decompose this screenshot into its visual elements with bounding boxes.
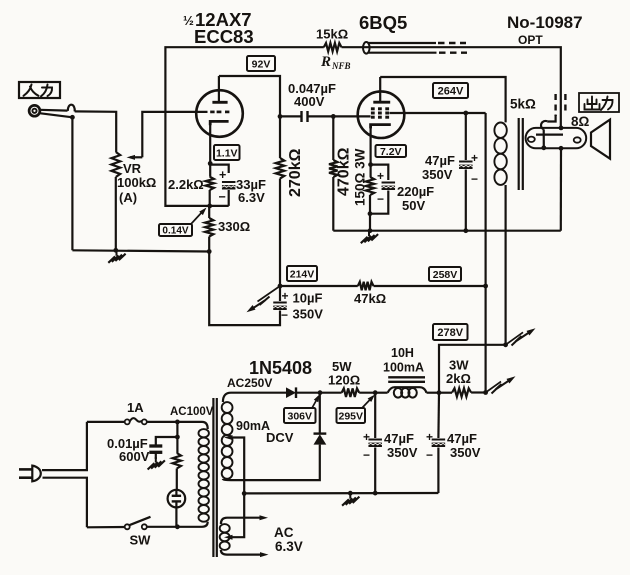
shield dashed continuation xyxy=(438,42,466,44)
6BQ5 plate xyxy=(373,101,390,104)
node 1.1V junction xyxy=(208,161,213,166)
wire 6BQ5 plate to OPT primary xyxy=(380,77,505,122)
wire switch to primary bottom xyxy=(147,526,202,528)
OPT primary 5kΩ winding xyxy=(494,123,506,138)
svg-text:AC100V: AC100V xyxy=(170,406,214,418)
wire shield to ground bus xyxy=(71,117,73,250)
power transformer primary winding xyxy=(202,422,208,429)
capacitor 47µF 350V (#2) xyxy=(437,393,440,438)
12AX7 cathode xyxy=(210,121,228,125)
ground xyxy=(116,250,118,256)
NFB cable shield opening xyxy=(363,42,370,54)
svg-text:1N5408: 1N5408 xyxy=(249,358,312,378)
switch SW xyxy=(87,526,125,528)
wire to 6BQ5 grid xyxy=(333,115,370,117)
ground xyxy=(155,457,157,463)
tube 6BQ5 envelope xyxy=(358,91,405,138)
svg-text:+: + xyxy=(377,169,384,183)
junction plate/270k/coupling cap xyxy=(278,114,283,119)
svg-text:5kΩ: 5kΩ xyxy=(510,97,536,112)
B+ riser (258V/g2) xyxy=(485,113,487,393)
svg-text:350V: 350V xyxy=(422,167,453,182)
capacitor 0.047µF 400V (coupling) xyxy=(280,115,301,117)
capacitor 47µF 350V (screen bypass) xyxy=(465,113,467,160)
svg-text:92V: 92V xyxy=(252,58,271,70)
12AX7 plate xyxy=(212,101,227,104)
svg-text:264V: 264V xyxy=(438,86,464,98)
6BQ5 cathode xyxy=(371,125,391,129)
svg-text:NFB: NFB xyxy=(331,61,351,71)
label box 出力 (output) xyxy=(579,93,619,112)
12AX7 cathode lead xyxy=(209,121,211,163)
svg-text:258V: 258V xyxy=(433,269,458,281)
svg-text:120Ω: 120Ω xyxy=(328,373,360,388)
resistor 3W 2kΩ xyxy=(439,392,452,394)
svg-text:470kΩ: 470kΩ xyxy=(336,147,353,196)
PSU ground bus xyxy=(242,491,247,496)
svg-text:278V: 278V xyxy=(437,327,463,339)
svg-text:+: + xyxy=(219,168,226,182)
258V line with 47kΩ xyxy=(280,285,358,287)
wire secondary to ground rail xyxy=(560,148,562,230)
svg-text:10H: 10H xyxy=(391,346,414,360)
AC plug xyxy=(19,468,32,471)
label box 214V xyxy=(287,266,317,281)
svg-text:600V: 600V xyxy=(119,449,150,464)
svg-text:6.3V: 6.3V xyxy=(238,190,265,205)
HV bottom lead xyxy=(223,445,320,481)
svg-text:AC: AC xyxy=(274,525,294,540)
cathode network ties xyxy=(210,165,229,173)
junction shield/ground xyxy=(70,115,75,120)
node 306V xyxy=(318,390,323,395)
svg-text:DCV: DCV xyxy=(266,430,294,445)
resistor 2.2kΩ xyxy=(206,177,214,190)
svg-text:1.1V: 1.1V xyxy=(216,147,238,159)
svg-text:½: ½ xyxy=(183,13,194,28)
OPT secondary winding xyxy=(526,128,587,148)
svg-text:47µF: 47µF xyxy=(447,431,477,446)
svg-text:306V: 306V xyxy=(287,410,312,422)
bleeder resistor xyxy=(176,437,178,453)
svg-text:−: − xyxy=(426,448,433,462)
NFB cable shield lines xyxy=(369,42,437,44)
resistor 330Ω xyxy=(208,206,210,218)
HV top lead xyxy=(223,393,286,402)
svg-text:(A): (A) xyxy=(119,190,137,205)
shielded input cable from jack xyxy=(40,109,68,112)
shield dashes near output xyxy=(554,94,556,116)
12AX7 grid (dashes) xyxy=(210,111,214,114)
shield termination hook at output xyxy=(547,115,555,122)
diode D2 1N5408 xyxy=(314,434,327,444)
NFB shielded cable center conductor xyxy=(342,47,561,128)
resistor 15kΩ R_NFB xyxy=(324,43,342,51)
svg-text:350V: 350V xyxy=(387,445,418,460)
capacitor 220µF xyxy=(382,182,396,184)
svg-text:+: + xyxy=(282,289,289,303)
measurement flash at 214V node xyxy=(258,286,281,302)
label box 278V xyxy=(433,324,468,340)
junction coupling/470k/6BQ5 grid xyxy=(331,114,336,119)
svg-text:350V: 350V xyxy=(293,307,324,322)
ground bus (input) xyxy=(72,250,209,251)
ground rail xyxy=(333,230,561,232)
svg-text:10µF: 10µF xyxy=(293,291,323,306)
resistor 470kΩ (grid leak) xyxy=(332,116,334,160)
wire jack hot to VR top xyxy=(75,111,117,152)
svg-text:47µF: 47µF xyxy=(384,431,414,446)
svg-text:150Ω 3W: 150Ω 3W xyxy=(353,148,368,206)
svg-text:2.2kΩ: 2.2kΩ xyxy=(168,177,204,192)
wire plate to coupling node (92V) xyxy=(219,76,280,116)
tube 12AX7 envelope xyxy=(196,90,243,137)
choke core xyxy=(388,376,425,378)
svg-text:+: + xyxy=(363,430,370,444)
cathode bottom tie / NFB node xyxy=(210,205,229,207)
capacitor 10µF 350V xyxy=(279,286,281,301)
svg-text:50V: 50V xyxy=(402,198,425,213)
svg-text:295V: 295V xyxy=(338,410,363,422)
svg-text:214V: 214V xyxy=(290,268,315,280)
node 92V box xyxy=(247,56,275,71)
HV secondary winding AC250V xyxy=(222,402,233,413)
6BQ5 cathode network: 150Ω 3W ∥ 220µF 50V xyxy=(368,162,373,167)
label box 1.1V xyxy=(214,145,240,160)
measurement flash at 276V node xyxy=(506,332,523,345)
label box 258V xyxy=(429,267,461,281)
junction 8Ω tap xyxy=(559,126,564,131)
node 258V feed xyxy=(483,390,488,395)
svg-text:−: − xyxy=(471,172,478,186)
diode D1 1N5408 xyxy=(286,387,296,398)
svg-text:220µF: 220µF xyxy=(397,184,434,199)
svg-text:0.14V: 0.14V xyxy=(162,226,188,237)
resistor 270kΩ (plate load) xyxy=(279,116,281,158)
label box 7.2V xyxy=(376,145,407,157)
svg-text:SW: SW xyxy=(130,533,152,548)
label box 入力 (input) xyxy=(19,82,60,98)
measurement flash at 2k output xyxy=(486,382,501,393)
choke 10H 100mA xyxy=(375,392,387,394)
node choke output / 276V feed xyxy=(437,390,442,395)
svg-text:−: − xyxy=(281,308,288,322)
svg-text:270kΩ: 270kΩ xyxy=(287,148,304,197)
svg-text:8Ω: 8Ω xyxy=(571,114,590,129)
svg-text:OPT: OPT xyxy=(518,33,543,47)
wire fuse to transformer primary xyxy=(147,421,202,423)
VR wiper arrow xyxy=(130,156,142,158)
svg-text:15kΩ: 15kΩ xyxy=(316,27,348,42)
OPT core xyxy=(518,118,520,190)
pilot lamp xyxy=(168,490,186,508)
6.3V heater winding xyxy=(220,524,230,532)
svg-text:7.2V: 7.2V xyxy=(380,146,402,158)
svg-text:ECC83: ECC83 xyxy=(194,26,254,47)
NFB feedback riser wire xyxy=(165,47,323,206)
svg-text:330Ω: 330Ω xyxy=(218,219,250,234)
svg-text:6.3V: 6.3V xyxy=(275,539,303,554)
junction 330/ground/10uF xyxy=(207,249,212,254)
label box 264V xyxy=(433,83,468,98)
ground xyxy=(368,231,370,237)
svg-text:R: R xyxy=(320,54,331,70)
potentiometer VR 100k (A) xyxy=(111,152,120,177)
capacitor 47µF 350V (#1) xyxy=(374,393,376,438)
svg-text:400V: 400V xyxy=(294,94,325,109)
svg-text:−: − xyxy=(219,190,226,204)
resistor 5W 120Ω xyxy=(320,392,342,394)
svg-text:+: + xyxy=(471,151,478,165)
speaker xyxy=(591,120,610,159)
svg-text:VR: VR xyxy=(123,161,142,176)
svg-text:No-10987: No-10987 xyxy=(507,13,583,32)
fuse 1A xyxy=(87,421,125,423)
input jack J1 xyxy=(29,105,40,116)
svg-text:47µF: 47µF xyxy=(425,153,455,168)
svg-text:−: − xyxy=(377,192,384,206)
HV center tap 90mA xyxy=(224,435,233,440)
svg-text:100kΩ: 100kΩ xyxy=(117,175,156,190)
node 295V xyxy=(373,390,378,395)
svg-text:1A: 1A xyxy=(127,400,144,415)
svg-text:−: − xyxy=(363,448,370,462)
svg-text:47kΩ: 47kΩ xyxy=(354,291,386,306)
svg-text:+: + xyxy=(426,430,433,444)
svg-text:6BQ5: 6BQ5 xyxy=(359,12,407,33)
6BQ5 cathode lead xyxy=(370,125,372,165)
276V line to OPT primary xyxy=(439,345,506,393)
wire VR bottom to ground bus xyxy=(115,177,117,250)
AC cord xyxy=(42,422,87,470)
svg-text:100mA: 100mA xyxy=(383,361,424,375)
6BQ5 grids (3 rows of dots) xyxy=(371,107,375,110)
capacitor 33µF 6.3V xyxy=(222,181,236,183)
wire 6BQ5 screen to B+ riser xyxy=(390,112,486,114)
svg-text:2kΩ: 2kΩ xyxy=(446,371,471,386)
capacitor 0.01µF 600V line-filter xyxy=(156,422,178,445)
ground xyxy=(349,493,351,499)
svg-text:AC250V: AC250V xyxy=(227,376,272,390)
svg-text:350V: 350V xyxy=(450,445,481,460)
svg-text:90mA: 90mA xyxy=(236,419,270,433)
label box 0.14V with arrow xyxy=(159,224,192,236)
transformer core xyxy=(212,398,214,557)
wire wiper to 12AX7 grid xyxy=(142,112,207,157)
cable shield hop xyxy=(68,105,75,112)
